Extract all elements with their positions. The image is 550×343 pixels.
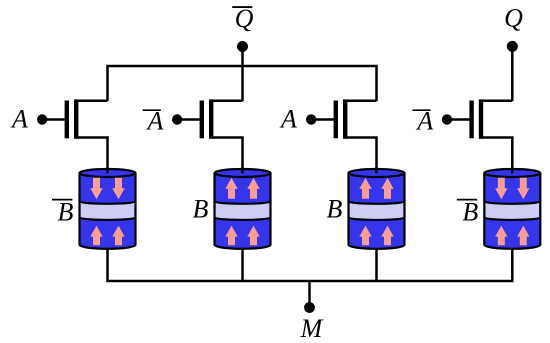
svg-text:B: B bbox=[327, 194, 343, 223]
transistor T2 (gate Abar) bbox=[172, 99, 243, 170]
label Abar (gate of T2) bbox=[143, 107, 164, 136]
svg-text:A: A bbox=[415, 107, 433, 136]
label Bbar (MTJ1) bbox=[52, 197, 74, 226]
wire T3 drain riser bbox=[375, 66, 378, 101]
MTJ4 cylinder (Bbar, antiparallel) bbox=[484, 167, 540, 249]
label Abar (gate of T4) bbox=[413, 107, 434, 136]
wire Qbar dot to T2 drain bbox=[241, 47, 244, 102]
label A (gate of T1) bbox=[10, 104, 28, 133]
svg-text:A: A bbox=[10, 104, 28, 133]
svg-text:B: B bbox=[58, 197, 74, 226]
wire MTJ1 bottom to rail bbox=[106, 248, 109, 281]
junction dot node Qbar bbox=[237, 41, 248, 52]
label Bbar (MTJ4) bbox=[457, 197, 479, 226]
MTJ3 cylinder (B, parallel) bbox=[349, 167, 405, 249]
wire bottom rail M net bbox=[106, 280, 513, 283]
node Qbar label bbox=[232, 4, 253, 33]
wire MTJ3 bottom to rail bbox=[375, 248, 378, 281]
label B (MTJ3) bbox=[327, 194, 343, 223]
transistor T1 (gate A) bbox=[37, 99, 108, 170]
svg-text:M: M bbox=[300, 314, 324, 343]
transistor T3 (gate A) bbox=[306, 99, 377, 170]
transistor T4 (gate Abar) bbox=[442, 99, 513, 170]
svg-text:Q: Q bbox=[235, 4, 254, 33]
label B (MTJ2) bbox=[193, 194, 209, 223]
wire MTJ2 bottom to rail bbox=[241, 248, 244, 281]
svg-text:B: B bbox=[462, 197, 478, 226]
junction dot node Q bbox=[507, 41, 518, 52]
wire MTJ4 bottom to rail bbox=[511, 248, 514, 281]
svg-text:A: A bbox=[279, 104, 297, 133]
wire Q dot to T4 drain bbox=[511, 46, 514, 101]
svg-text:A: A bbox=[146, 107, 164, 136]
MTJ2 cylinder (B, parallel) bbox=[215, 167, 271, 249]
wire M stub bbox=[308, 281, 311, 304]
svg-text:B: B bbox=[193, 194, 209, 223]
node Q label bbox=[504, 4, 523, 33]
wire top rail Qbar net bbox=[106, 65, 377, 68]
junction dot node M bbox=[304, 302, 315, 313]
label A (gate of T3) bbox=[279, 104, 297, 133]
svg-text:Q: Q bbox=[504, 4, 523, 33]
MTJ1 cylinder (Bbar, antiparallel) bbox=[80, 167, 136, 249]
wire T1 drain riser bbox=[106, 66, 109, 101]
